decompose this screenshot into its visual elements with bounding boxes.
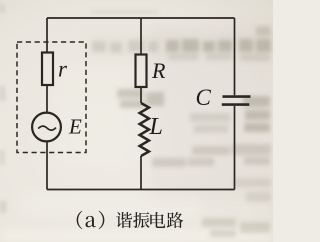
wire: R to inductor L [140,87,142,103]
svg-text:L: L [149,114,163,140]
soft toner veil over right half [88,24,273,199]
capacitor C bottom plate [222,103,250,106]
svg-text:R: R [151,58,166,83]
caption glyph （ [77,211,83,229]
wire: L to bottom bus [140,156,142,190]
sine symbol inside source [38,126,56,130]
caption (a) 谐振电路 [77,211,184,229]
AC source E [32,113,61,142]
wire: r to source E [46,85,48,113]
caption glyph 路 [167,212,183,228]
wire: middle branch top (top bus to resistor R) [140,18,142,55]
wire: left branch top (top bus to resistor r) [46,18,48,53]
caption glyph ） [99,211,105,229]
wire: bottom bus [47,189,235,191]
resistor r [42,53,53,86]
dashed source box [17,42,86,153]
svg-text:r: r [58,57,68,82]
wire: right branch top (top bus to capacitor) [234,18,236,95]
capacitor C top plate [223,95,251,98]
caption glyph a [86,216,96,227]
caption glyph 振 [133,212,150,228]
caption glyph 谐 [116,212,132,228]
wire: capacitor to bottom bus [234,106,236,190]
svg-text:E: E [68,114,82,138]
resistor R [136,55,147,88]
wire: source E to bottom bus [46,141,48,189]
svg-text:C: C [196,85,212,110]
caption glyph 电 [150,212,165,228]
wire: top bus from left branch to capacitor branch [47,17,235,19]
inductor L [140,103,149,156]
